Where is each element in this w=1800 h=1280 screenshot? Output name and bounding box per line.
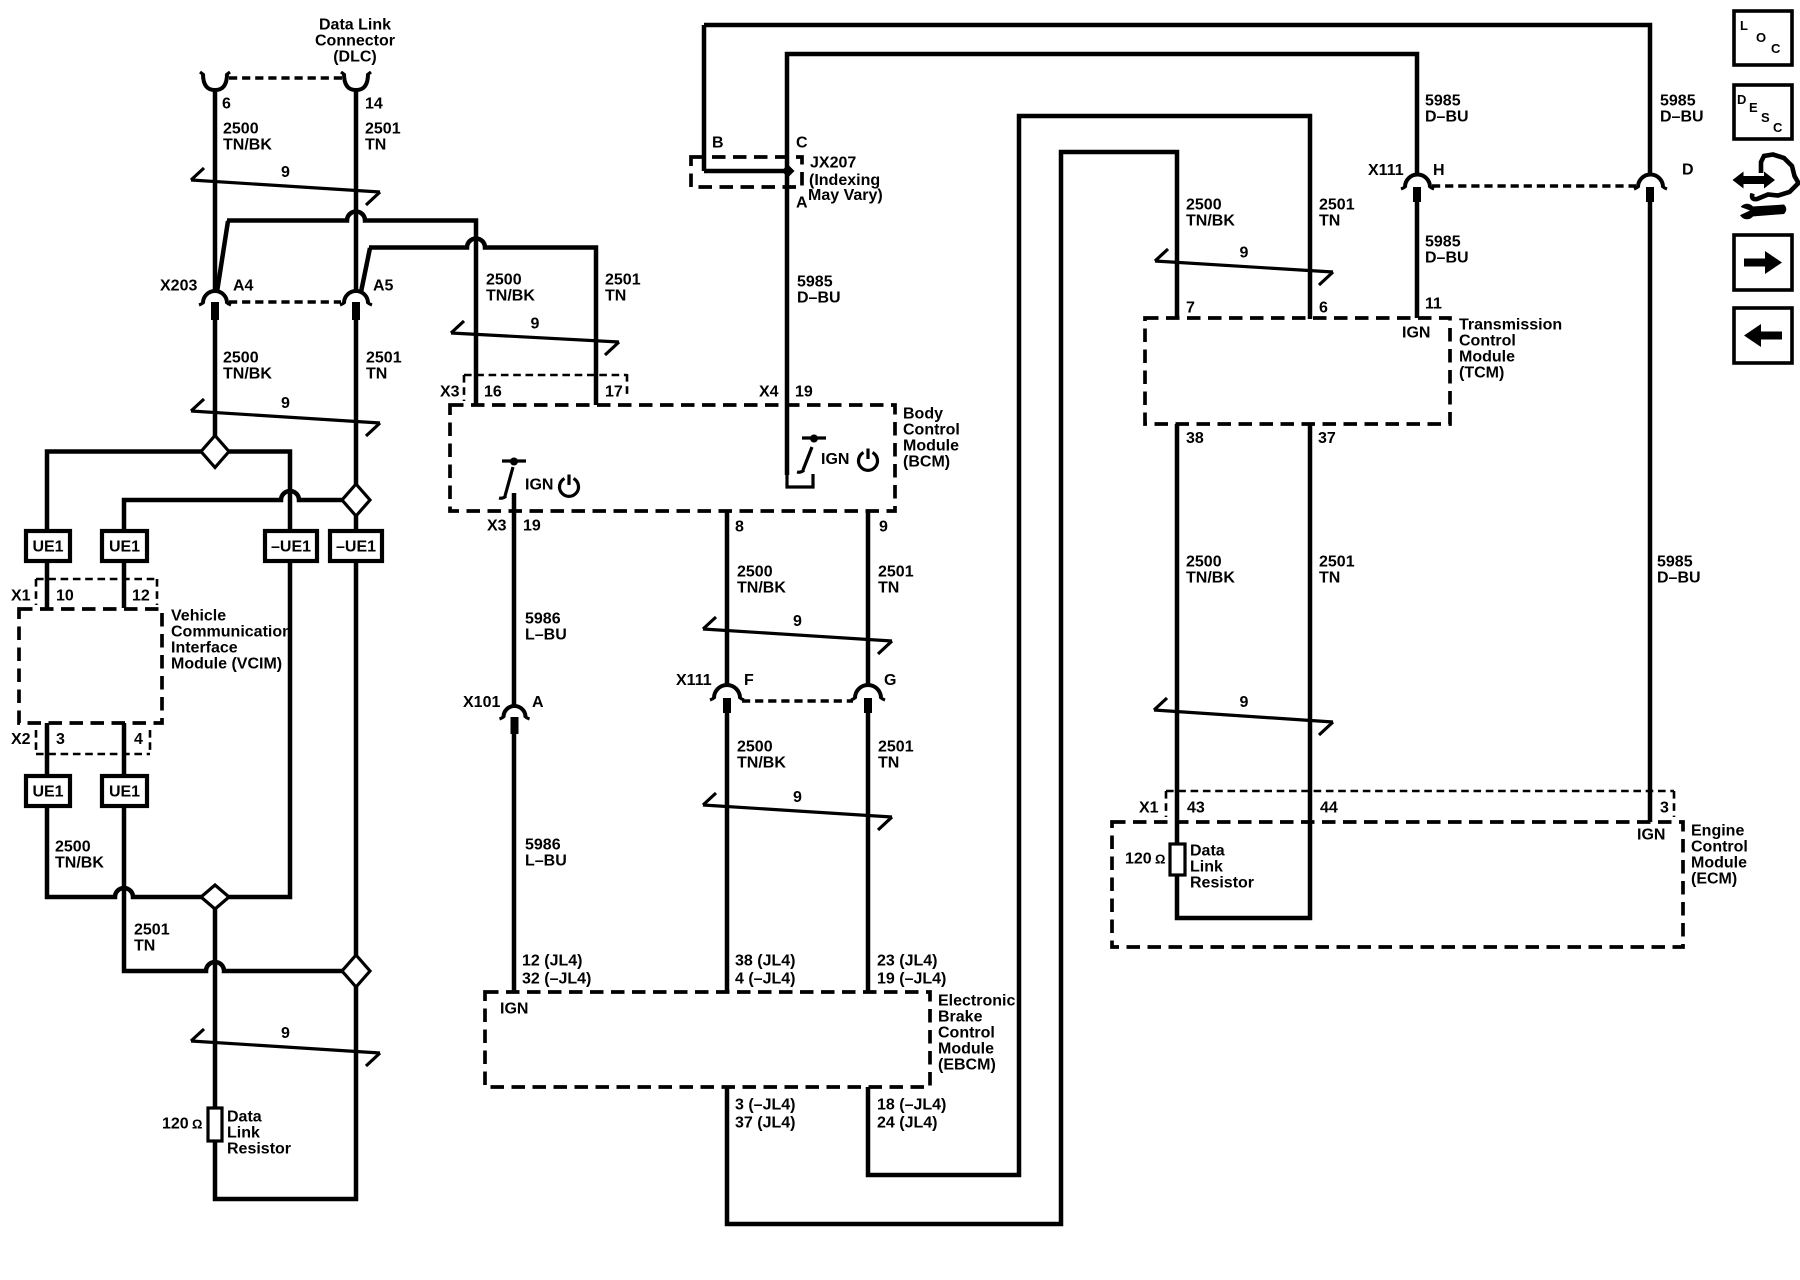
connector DLC (Data Link Connector) title xyxy=(315,17,395,66)
svg-text:C: C xyxy=(796,135,808,152)
svg-text:TN: TN xyxy=(1319,570,1340,587)
label 5985 D-BU (D lower) xyxy=(1657,554,1701,587)
svg-text:IGN: IGN xyxy=(525,477,553,494)
svg-text:TN: TN xyxy=(878,755,899,772)
svg-text:L–BU: L–BU xyxy=(525,853,567,870)
svg-text:7: 7 xyxy=(1186,300,1195,317)
splice diamond S3 xyxy=(342,955,370,987)
svg-text:9: 9 xyxy=(281,1025,290,1042)
wire JX207 internal B to C junction xyxy=(704,169,788,174)
svg-text:Brake: Brake xyxy=(938,1009,983,1026)
ignition switch symbol IGN (BCM X4-19) xyxy=(787,435,826,488)
label 2500 TN/BK xyxy=(223,121,272,154)
svg-text:19 (–JL4): 19 (–JL4) xyxy=(877,971,946,988)
svg-text:Control: Control xyxy=(1459,333,1516,350)
terminal box -UE1 (left) xyxy=(265,531,317,561)
svg-text:D–BU: D–BU xyxy=(1425,109,1469,126)
svg-text:10: 10 xyxy=(56,588,74,605)
svg-text:A4: A4 xyxy=(233,278,254,295)
terminal box UE1 (X2-3) xyxy=(26,776,70,806)
wire splice bus to UE1 and -UE1 (upper) xyxy=(47,452,290,532)
svg-text:3 (–JL4): 3 (–JL4) xyxy=(735,1097,795,1114)
svg-text:4 (–JL4): 4 (–JL4) xyxy=(735,971,795,988)
wire jumper B from JX207 to top rail xyxy=(702,25,707,171)
label 2501 TN (TCM 37) xyxy=(1319,554,1355,587)
svg-text:2500: 2500 xyxy=(1186,554,1222,571)
svg-text:Link: Link xyxy=(1190,859,1223,876)
twisted pair symbol 9 (BCM 8/9) xyxy=(703,613,892,654)
label 5985 D-BU (below JX207) xyxy=(797,274,841,307)
label 2501 TN (branch to BCM 17) xyxy=(605,272,641,305)
DLC connector dashed body xyxy=(229,76,342,79)
module name TCM xyxy=(1459,317,1562,382)
svg-text:A: A xyxy=(796,195,808,212)
svg-text:(BCM): (BCM) xyxy=(903,454,950,471)
svg-text:UE1: UE1 xyxy=(32,784,63,801)
module box TCM xyxy=(1145,318,1450,424)
svg-text:12 (JL4): 12 (JL4) xyxy=(522,953,582,970)
svg-text:5985: 5985 xyxy=(1660,93,1696,110)
EBCM IGN pin labels 12/32 xyxy=(500,953,591,1018)
wire 2500 TN/BK BCM pin 8 down to X111 F xyxy=(725,511,730,686)
svg-text:Electronic: Electronic xyxy=(938,993,1015,1010)
svg-text:Control: Control xyxy=(938,1025,995,1042)
label 2501 TN (lower VCIM) xyxy=(134,922,170,955)
label IGN with power icon (BCM right) xyxy=(821,449,877,471)
svg-text:38: 38 xyxy=(1186,430,1204,447)
svg-text:D–BU: D–BU xyxy=(1660,109,1704,126)
svg-text:Module (VCIM): Module (VCIM) xyxy=(171,656,282,673)
svg-text:G: G xyxy=(884,672,896,689)
svg-text:TN/BK: TN/BK xyxy=(486,288,535,305)
svg-text:UE1: UE1 xyxy=(109,539,140,556)
twisted pair symbol 9 (branch to BCM) xyxy=(451,316,619,356)
wire 2500 TN/BK X203 A4 down to splice xyxy=(213,320,218,437)
svg-text:24 (JL4): 24 (JL4) xyxy=(877,1115,937,1132)
svg-text:2501: 2501 xyxy=(1319,197,1355,214)
svg-text:X3: X3 xyxy=(487,518,507,535)
svg-text:5985: 5985 xyxy=(1425,93,1461,110)
svg-text:IGN: IGN xyxy=(1402,325,1430,342)
svg-text:17: 17 xyxy=(605,384,623,401)
module name BCM xyxy=(903,406,960,471)
svg-text:(EBCM): (EBCM) xyxy=(938,1057,996,1074)
wire 5986 L-BU from X101 A down to EBCM IGN xyxy=(512,734,517,992)
wire VCIM X2-3 to UE1 xyxy=(45,723,50,776)
module box EBCM xyxy=(485,992,930,1087)
terminal box UE1 (X2-4) xyxy=(102,776,147,806)
DLC cavity pin 14 xyxy=(341,72,371,90)
module name VCIM xyxy=(171,608,292,673)
svg-text:2501: 2501 xyxy=(366,350,402,367)
wire 5985 D-BU connector D down to ECM 3 xyxy=(1648,202,1653,822)
EBCM pin labels 18/24 (bottom) xyxy=(877,1097,946,1132)
svg-text:2500: 2500 xyxy=(223,350,259,367)
svg-text:O: O xyxy=(1756,30,1766,45)
label Data Link Resistor (ECM) xyxy=(1190,843,1254,892)
resistor 120 ohm (data link resistor) xyxy=(162,1108,222,1141)
label 5986 L-BU (lower) xyxy=(525,837,567,870)
label Data Link Resistor xyxy=(227,1109,291,1158)
svg-text:4: 4 xyxy=(134,731,143,748)
svg-text:6: 6 xyxy=(1319,300,1328,317)
svg-text:(ECM): (ECM) xyxy=(1691,871,1737,888)
junction dot JX207 xyxy=(782,165,795,178)
svg-text:23 (JL4): 23 (JL4) xyxy=(877,953,937,970)
svg-text:–UE1: –UE1 xyxy=(271,539,311,556)
svg-text:S: S xyxy=(1761,110,1770,125)
svg-text:X2: X2 xyxy=(11,731,31,748)
wire 2501 TN UE1 down and across to splice S3 with hop xyxy=(124,806,344,971)
svg-text:UE1: UE1 xyxy=(32,539,63,556)
label 2501 TN (below X203) xyxy=(366,350,402,383)
svg-text:Body: Body xyxy=(903,406,943,423)
svg-text:5985: 5985 xyxy=(1657,554,1693,571)
svg-text:5985: 5985 xyxy=(1425,234,1461,251)
wire 2500 TN/BK TCM 38 down to ECM resistor xyxy=(1175,424,1180,844)
wire 2500 TN/BK from DLC pin 6 down to X203 A4 xyxy=(213,88,218,291)
wire splice S4 down to resistor xyxy=(213,909,218,1108)
svg-text:X1: X1 xyxy=(11,588,31,605)
label 2500 TN/BK (lower VCIM) xyxy=(55,839,104,872)
label 2501 TN (TCM 6) xyxy=(1319,197,1355,230)
svg-text:Link: Link xyxy=(227,1125,260,1142)
svg-text:2500: 2500 xyxy=(486,272,522,289)
svg-text:D–BU: D–BU xyxy=(797,290,841,307)
svg-text:Transmission: Transmission xyxy=(1459,317,1562,334)
module name ECM xyxy=(1691,823,1748,888)
svg-text:2500: 2500 xyxy=(737,739,773,756)
icon box arrow right xyxy=(1734,235,1792,290)
svg-text:14: 14 xyxy=(365,96,383,113)
connector row X2 (VCIM) xyxy=(11,730,150,754)
wire UE1 to VCIM X1-12 xyxy=(122,561,127,608)
BCM pin X4 19 labels xyxy=(759,384,813,401)
svg-text:Resistor: Resistor xyxy=(1190,875,1254,892)
label 2501 TN (BCM 9) xyxy=(878,564,914,597)
svg-text:X111: X111 xyxy=(676,672,712,689)
twisted pair symbol 9 (DLC drop) xyxy=(191,164,380,205)
wire 2501 TN X111 G down to EBCM xyxy=(866,713,871,992)
wire UE1 to VCIM X1-10 xyxy=(45,561,50,608)
svg-text:9: 9 xyxy=(1240,245,1249,262)
svg-text:TN/BK: TN/BK xyxy=(55,855,104,872)
svg-text:TN: TN xyxy=(605,288,626,305)
svg-text:37 (JL4): 37 (JL4) xyxy=(735,1115,795,1132)
BCM X3 19 pin labels (bottom) xyxy=(487,518,541,535)
label 2500 TN/BK (BCM 8) xyxy=(737,564,786,597)
wire 5986 L-BU from BCM X3-19 down to X101 A xyxy=(512,493,517,706)
svg-text:37: 37 xyxy=(1318,430,1336,447)
svg-text:11: 11 xyxy=(1425,296,1442,313)
connector terminal D xyxy=(1634,162,1694,203)
svg-text:9: 9 xyxy=(793,613,802,630)
connector X111 terminal F xyxy=(676,672,754,713)
connector X111 terminal G xyxy=(851,672,896,713)
twisted pair symbol 9 (TCM bottom) xyxy=(1154,694,1333,735)
svg-text:2501: 2501 xyxy=(605,272,641,289)
svg-text:(TCM): (TCM) xyxy=(1459,365,1504,382)
terminal box UE1 (X1-12) xyxy=(102,531,147,561)
svg-text:D–BU: D–BU xyxy=(1657,570,1701,587)
svg-text:9: 9 xyxy=(793,789,802,806)
wire 2501 TN X203 A5 down to splice xyxy=(354,320,359,485)
svg-text:TN: TN xyxy=(365,137,386,154)
svg-text:D–BU: D–BU xyxy=(1425,250,1469,267)
svg-text:32 (–JL4): 32 (–JL4) xyxy=(522,971,591,988)
svg-text:2501: 2501 xyxy=(878,564,914,581)
svg-text:IGN: IGN xyxy=(821,451,849,468)
X203 terminal A4 xyxy=(199,278,254,321)
svg-text:L: L xyxy=(1740,18,1748,33)
svg-text:12: 12 xyxy=(132,588,150,605)
label IGN with power icon (BCM left) xyxy=(525,475,579,497)
svg-text:TN/BK: TN/BK xyxy=(1186,213,1235,230)
svg-text:2501: 2501 xyxy=(1319,554,1355,571)
svg-text:X111: X111 xyxy=(1368,162,1404,179)
wire 2500 TN/BK loop EBCM 3/37 to TCM 7 xyxy=(727,152,1177,1224)
svg-text:TN/BK: TN/BK xyxy=(737,580,786,597)
module box ECM xyxy=(1112,822,1683,947)
icon box arrow left xyxy=(1734,308,1792,363)
twisted pair symbol 9 (TCM top) xyxy=(1155,245,1333,286)
svg-text:Ω: Ω xyxy=(1155,852,1165,867)
terminal box UE1 (X1-10) xyxy=(26,531,70,561)
svg-text:(DLC): (DLC) xyxy=(333,49,377,66)
svg-text:C: C xyxy=(1771,41,1781,56)
svg-text:6: 6 xyxy=(222,96,231,113)
svg-text:C: C xyxy=(1773,120,1783,135)
X111 H-D dashed connector line xyxy=(1432,184,1636,187)
connector X111 terminal H xyxy=(1368,162,1445,202)
svg-text:5986: 5986 xyxy=(525,611,561,628)
svg-text:Communication: Communication xyxy=(171,624,292,641)
svg-text:H: H xyxy=(1433,162,1445,179)
label 5985 D-BU (H lower) xyxy=(1425,234,1469,267)
svg-text:Module: Module xyxy=(1459,349,1515,366)
wire 2500 TN/BK UE1 down and across to -UE1 with hop xyxy=(47,561,290,897)
label 2500 TN/BK (below X203) xyxy=(223,350,272,383)
connector row X1 (VCIM) xyxy=(11,579,157,605)
wire branch 2501 TN from A5 up to BCM X3-17 xyxy=(361,239,596,406)
wire 2501 TN from DLC pin 14 down to X203 A5 xyxy=(354,88,359,291)
svg-text:JX207: JX207 xyxy=(810,155,856,172)
wire splice S3 down to resistor loop xyxy=(215,986,356,1199)
label 2501 TN (below X111 G) xyxy=(878,739,914,772)
icon box LOC xyxy=(1734,11,1792,65)
label 2500 TN/BK (TCM 7) xyxy=(1186,197,1235,230)
svg-text:Data: Data xyxy=(1190,843,1225,860)
svg-text:X3: X3 xyxy=(440,384,460,401)
svg-text:2500: 2500 xyxy=(1186,197,1222,214)
svg-text:Vehicle: Vehicle xyxy=(171,608,226,625)
splice diamond S1 xyxy=(201,436,229,468)
svg-text:120: 120 xyxy=(1125,851,1152,868)
svg-text:B: B xyxy=(712,135,724,152)
svg-text:2500: 2500 xyxy=(223,121,259,138)
wire 2501 TN BCM pin 9 down to X111 G xyxy=(866,511,871,686)
icon arrows and wrench xyxy=(1733,155,1799,220)
label 5985 D-BU (H upper) xyxy=(1425,93,1469,126)
X203 dashed connector line xyxy=(229,300,341,303)
wire 2500 TN/BK X111 F down to EBCM xyxy=(725,713,730,992)
svg-text:9: 9 xyxy=(879,519,888,536)
svg-text:Data Link: Data Link xyxy=(319,17,391,34)
svg-text:–UE1: –UE1 xyxy=(336,539,376,556)
X203 terminal A5 xyxy=(340,278,394,321)
splice pack JX207 dashed box xyxy=(691,157,802,187)
svg-text:Connector: Connector xyxy=(315,33,395,50)
twisted pair symbol 9 (below X203) xyxy=(191,395,380,436)
ignition switch symbol IGN (BCM X3-19) xyxy=(499,458,526,499)
TCM pin 11 label xyxy=(1402,296,1442,342)
svg-text:E: E xyxy=(1749,100,1758,115)
svg-text:L–BU: L–BU xyxy=(525,627,567,644)
svg-text:Module: Module xyxy=(903,438,959,455)
svg-text:Ω: Ω xyxy=(192,1117,202,1132)
terminal box -UE1 (right) xyxy=(330,531,382,561)
svg-text:F: F xyxy=(744,672,754,689)
svg-text:5985: 5985 xyxy=(797,274,833,291)
wire VCIM X2-4 to UE1 xyxy=(122,723,127,776)
svg-text:120: 120 xyxy=(162,1116,189,1133)
svg-text:A5: A5 xyxy=(373,278,394,295)
wire 5985 D-BU top rail to connector D xyxy=(704,25,1650,175)
svg-text:2501: 2501 xyxy=(134,922,170,939)
module box VCIM xyxy=(19,609,162,723)
svg-text:9: 9 xyxy=(1240,694,1249,711)
wire branch 2500 TN/BK from A4 up to BCM X3-16 xyxy=(217,212,476,406)
svg-text:X203: X203 xyxy=(160,278,197,295)
svg-text:Interface: Interface xyxy=(171,640,238,657)
svg-text:3: 3 xyxy=(1660,800,1669,817)
svg-text:9: 9 xyxy=(531,316,540,333)
svg-text:19: 19 xyxy=(795,384,813,401)
svg-text:Engine: Engine xyxy=(1691,823,1744,840)
svg-text:16: 16 xyxy=(484,384,502,401)
wire 2501 TN loop EBCM 18/24 to TCM 6 xyxy=(868,116,1310,1175)
svg-text:38 (JL4): 38 (JL4) xyxy=(735,953,795,970)
label 5985 D-BU (D upper) xyxy=(1660,93,1704,126)
svg-text:TN: TN xyxy=(366,366,387,383)
svg-text:IGN: IGN xyxy=(500,1001,528,1018)
icon box DESC xyxy=(1734,85,1792,139)
svg-text:9: 9 xyxy=(281,395,290,412)
svg-text:X4: X4 xyxy=(759,384,779,401)
svg-text:TN/BK: TN/BK xyxy=(223,366,272,383)
label 2500 TN/BK (branch to BCM 16) xyxy=(486,272,535,305)
svg-text:D: D xyxy=(1737,92,1746,107)
svg-text:TN/BK: TN/BK xyxy=(223,137,272,154)
wire splice S2 down to -UE1 xyxy=(354,514,359,531)
label 5986 L-BU (upper) xyxy=(525,611,567,644)
DLC cavity pin 6 xyxy=(200,72,230,90)
svg-text:TN: TN xyxy=(1319,213,1340,230)
svg-text:44: 44 xyxy=(1320,800,1338,817)
svg-text:TN: TN xyxy=(134,938,155,955)
module name EBCM xyxy=(938,993,1015,1074)
label 2500 TN/BK (TCM 38) xyxy=(1186,554,1235,587)
svg-text:3: 3 xyxy=(56,731,65,748)
svg-text:Control: Control xyxy=(1691,839,1748,856)
svg-text:TN: TN xyxy=(878,580,899,597)
svg-text:X1: X1 xyxy=(1139,800,1159,817)
EBCM pin labels 3/37 (bottom) xyxy=(735,1097,795,1132)
svg-text:5986: 5986 xyxy=(525,837,561,854)
wire from UE1(12) to splice S2 with hop xyxy=(124,491,344,531)
label 2500 TN/BK (below X111 F) xyxy=(737,739,786,772)
splice diamond S4 xyxy=(201,885,229,909)
module box BCM xyxy=(450,405,895,511)
connector X101 terminal A xyxy=(463,694,544,734)
svg-text:9: 9 xyxy=(281,164,290,181)
wire 5985 D-BU from JX207 A down to BCM X4-19 and across to X111 H xyxy=(787,54,1417,475)
splice diamond S2 xyxy=(342,484,370,516)
svg-text:TN/BK: TN/BK xyxy=(1186,570,1235,587)
svg-text:Module: Module xyxy=(1691,855,1747,872)
svg-text:Data: Data xyxy=(227,1109,262,1126)
svg-text:May Vary): May Vary) xyxy=(808,187,883,204)
svg-text:Control: Control xyxy=(903,422,960,439)
svg-text:D: D xyxy=(1682,162,1694,179)
wire -UE1 down to splice S3 xyxy=(354,561,359,956)
svg-text:19: 19 xyxy=(523,518,541,535)
connector row X3 (BCM top) xyxy=(440,374,627,401)
svg-text:A: A xyxy=(532,694,544,711)
EBCM pin labels 38/4 xyxy=(735,953,795,988)
connector row X1 (ECM) xyxy=(1139,791,1674,817)
label 2501 TN xyxy=(365,121,401,154)
label JX207 (Indexing May Vary) xyxy=(808,155,883,205)
wire 5985 D-BU X111 H down to TCM 11 xyxy=(1415,202,1420,318)
svg-text:TN/BK: TN/BK xyxy=(737,755,786,772)
X111 F-G dashed connector line xyxy=(742,699,853,702)
svg-text:8: 8 xyxy=(735,519,744,536)
svg-text:UE1: UE1 xyxy=(109,784,140,801)
svg-text:2501: 2501 xyxy=(878,739,914,756)
wire 2501 TN TCM 37 down through ECM 44 to resistor loop xyxy=(1177,424,1310,918)
svg-text:X101: X101 xyxy=(463,694,500,711)
svg-text:Resistor: Resistor xyxy=(227,1141,291,1158)
svg-text:Module: Module xyxy=(938,1041,994,1058)
svg-text:18 (–JL4): 18 (–JL4) xyxy=(877,1097,946,1114)
EBCM pin labels 23/19 xyxy=(877,953,946,988)
twisted pair symbol 9 (resistor loop) xyxy=(191,1025,380,1066)
svg-text:2501: 2501 xyxy=(365,121,401,138)
svg-text:2500: 2500 xyxy=(55,839,91,856)
resistor 120 ohm (ECM data link resistor) xyxy=(1125,844,1185,875)
twisted pair symbol 9 (EBCM drop) xyxy=(703,789,892,830)
svg-text:2500: 2500 xyxy=(737,564,773,581)
svg-text:43: 43 xyxy=(1187,800,1205,817)
svg-text:IGN: IGN xyxy=(1637,827,1665,844)
